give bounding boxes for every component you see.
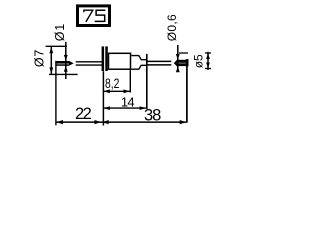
marking label box 75 — [78, 6, 110, 26]
dimension dia 7 — [33, 46, 78, 74]
dimension 14 — [103, 94, 147, 110]
svg-text:Ø1: Ø1 — [53, 23, 67, 41]
extension line at flange — [102, 71, 104, 125]
diode body — [109, 53, 131, 69]
extension line at body right edge — [129, 70, 131, 93]
svg-text:8,2: 8,2 — [105, 75, 120, 91]
svg-text:38: 38 — [144, 106, 161, 124]
svg-text:Ø0,6: Ø0,6 — [165, 14, 179, 41]
dimension dia 5 — [179, 52, 211, 70]
svg-text:Ø7: Ø7 — [33, 49, 47, 67]
flange disc — [102, 46, 108, 71]
left lead wire — [56, 61, 102, 66]
svg-text:22: 22 — [75, 105, 92, 123]
extension line at right lead end — [186, 59, 188, 122]
extension line at crimp end — [146, 54, 148, 109]
extension line at left lead tip — [55, 61, 57, 126]
svg-text:14: 14 — [121, 94, 134, 109]
dimension 22 and 38 lead lengths — [56, 105, 187, 124]
crimp neck — [131, 56, 147, 70]
dimension dia 1 — [53, 23, 68, 79]
svg-text:ø5: ø5 — [192, 54, 206, 68]
dimension dia 0,6 — [165, 14, 180, 72]
dimension 8,2 body length — [103, 75, 131, 93]
right lead wire — [148, 59, 189, 66]
